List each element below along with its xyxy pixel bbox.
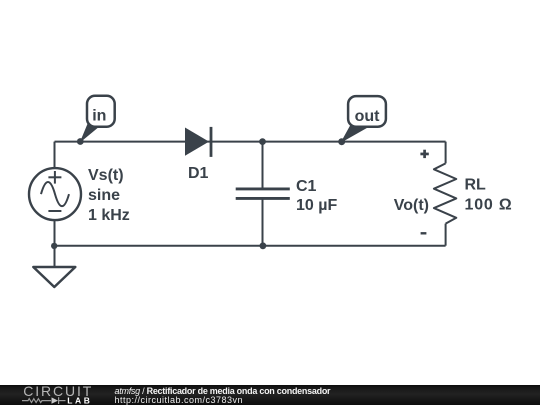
capacitor C1 bbox=[236, 142, 290, 246]
label minus terminal bbox=[421, 232, 427, 234]
junction dot cap bottom bbox=[260, 242, 267, 249]
footer bar bbox=[0, 385, 540, 405]
footer logo resistor-diode glyph bbox=[22, 397, 66, 404]
wire source bottom bbox=[54, 221, 56, 246]
label Vs(t) value bbox=[88, 167, 130, 224]
svg-text:10 µF: 10 µF bbox=[296, 197, 337, 214]
node in flag box bbox=[87, 96, 115, 127]
svg-text:C1: C1 bbox=[296, 178, 317, 195]
voltage source minus sign bbox=[48, 210, 61, 212]
svg-text:sine: sine bbox=[88, 187, 120, 204]
svg-text:Vo(t): Vo(t) bbox=[394, 197, 429, 214]
wire ground stub bbox=[54, 246, 56, 267]
svg-text:100 Ω: 100 Ω bbox=[465, 196, 513, 213]
wire bottom rail bbox=[55, 245, 446, 247]
node out flag box bbox=[348, 96, 386, 127]
node out flag tail bbox=[342, 124, 369, 142]
junction dot cap top bbox=[259, 138, 266, 145]
svg-text:1 kHz: 1 kHz bbox=[88, 207, 130, 224]
voltage source Vs(t) circle bbox=[29, 168, 81, 220]
node in flag tail bbox=[81, 122, 98, 141]
voltage source sine wave bbox=[41, 182, 69, 206]
svg-text:D1: D1 bbox=[188, 165, 209, 182]
svg-text:Vs(t): Vs(t) bbox=[88, 167, 124, 184]
ground bbox=[33, 267, 75, 287]
node in junction dot bbox=[77, 138, 84, 145]
wire top rail bbox=[55, 141, 446, 143]
label plus terminal bbox=[420, 150, 428, 158]
junction dot source bottom bbox=[51, 243, 57, 249]
svg-text:LAB: LAB bbox=[67, 396, 92, 405]
label C1 value bbox=[296, 178, 337, 214]
node out junction dot bbox=[338, 138, 345, 145]
label RL value bbox=[465, 177, 513, 214]
svg-text:RL: RL bbox=[465, 177, 487, 194]
diode D1 bbox=[185, 127, 211, 157]
resistor RL bbox=[434, 142, 456, 246]
svg-text:out: out bbox=[355, 108, 381, 125]
voltage source plus sign bbox=[48, 171, 61, 184]
svg-text:in: in bbox=[92, 107, 106, 124]
wire left vertical (source branch) bbox=[54, 142, 56, 169]
svg-text:http://circuitlab.com/c3783vn: http://circuitlab.com/c3783vn bbox=[115, 395, 244, 405]
